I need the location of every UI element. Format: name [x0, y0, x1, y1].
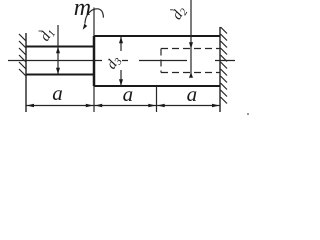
- d2 down arrowhead: [189, 42, 193, 49]
- arrow pair at step: [86, 104, 94, 107]
- right wall: [219, 27, 221, 112]
- arrow right end: [212, 104, 220, 107]
- label d2: [169, 3, 191, 24]
- left wall hatching: [19, 34, 26, 76]
- d1 down arrowhead: [56, 68, 60, 75]
- step extension line down: [93, 86, 95, 112]
- tick near d2 label: [170, 9, 174, 11]
- torque arrowhead: [83, 24, 88, 30]
- stray dot: [247, 113, 249, 115]
- middle extension line: [156, 86, 158, 112]
- svg-text:a: a: [187, 82, 198, 106]
- label d3: [103, 53, 124, 73]
- step axis extension up (torque axis): [93, 8, 95, 37]
- shaft large section outline: [94, 36, 220, 86]
- d1 up arrowhead: [56, 47, 60, 54]
- svg-text:a: a: [123, 82, 134, 106]
- step line (thick part): [93, 36, 96, 86]
- svg-text:a: a: [52, 81, 63, 105]
- d3 down arrowhead: [119, 79, 123, 86]
- tick near d1 label: [39, 30, 43, 32]
- label d1: [37, 25, 58, 45]
- d3 up arrowhead: [119, 37, 123, 44]
- torque m arc: [85, 9, 104, 24]
- shaft small section outline: [26, 47, 94, 75]
- left wall: [25, 33, 27, 112]
- right wall hatching: [221, 27, 228, 104]
- d2 up arrowhead: [189, 72, 193, 78]
- arrow pair at middle: [148, 104, 156, 107]
- svg-text:m: m: [74, 0, 91, 21]
- arrow left end: [27, 104, 35, 107]
- d3 dimension line: [120, 37, 122, 86]
- centerline: [8, 60, 235, 62]
- d1 dimension line: [57, 25, 59, 74]
- d2 dimension line: [190, 0, 192, 77]
- bottom dimension line: [26, 105, 220, 107]
- hidden hole dashed outline: [161, 49, 220, 73]
